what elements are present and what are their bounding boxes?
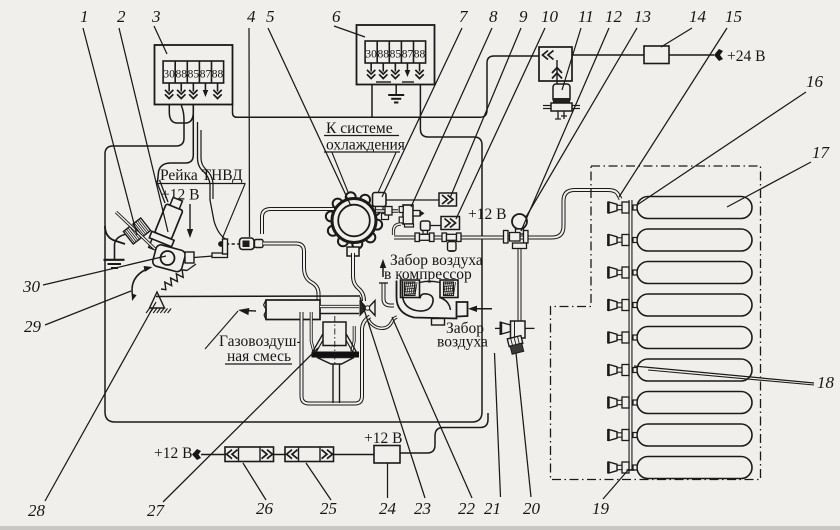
svg-text:26: 26 — [256, 499, 274, 518]
svg-text:11: 11 — [578, 7, 594, 26]
svg-text:30: 30 — [163, 69, 175, 81]
svg-text:12: 12 — [605, 7, 623, 26]
svg-text:88: 88 — [176, 69, 188, 81]
svg-text:4: 4 — [247, 7, 256, 26]
svg-text:16: 16 — [806, 72, 824, 91]
svg-text:9: 9 — [519, 7, 528, 26]
svg-text:22: 22 — [458, 499, 476, 518]
svg-text:25: 25 — [320, 499, 337, 518]
svg-text:ная смесь: ная смесь — [227, 348, 291, 365]
svg-text:88: 88 — [414, 49, 426, 61]
svg-text:88: 88 — [212, 69, 224, 81]
svg-text:30: 30 — [365, 49, 377, 61]
svg-text:18: 18 — [817, 373, 835, 392]
svg-text:29: 29 — [24, 317, 42, 336]
svg-text:охлаждения: охлаждения — [326, 137, 405, 154]
svg-text:30: 30 — [22, 277, 41, 296]
svg-text:20: 20 — [523, 499, 541, 518]
svg-text:28: 28 — [28, 501, 46, 520]
svg-text:+12 В: +12 В — [154, 445, 192, 462]
svg-text:14: 14 — [689, 7, 707, 26]
svg-text:2: 2 — [117, 7, 126, 26]
svg-text:воздуха: воздуха — [437, 334, 488, 351]
svg-text:88: 88 — [378, 49, 390, 61]
svg-text:87: 87 — [402, 49, 414, 61]
svg-text:+12 В: +12 В — [364, 430, 402, 447]
svg-text:3: 3 — [151, 7, 161, 26]
svg-text:87: 87 — [200, 69, 212, 81]
svg-text:5: 5 — [266, 7, 275, 26]
svg-text:в компрессор: в компрессор — [384, 266, 472, 283]
svg-text:Рейка ТНВД: Рейка ТНВД — [160, 167, 243, 184]
svg-text:+12 В: +12 В — [468, 206, 506, 223]
svg-text:24: 24 — [379, 499, 397, 518]
svg-text:21: 21 — [484, 499, 501, 518]
svg-text:К системе: К системе — [326, 120, 393, 137]
svg-text:27: 27 — [147, 501, 166, 520]
svg-text:85: 85 — [390, 49, 402, 61]
svg-text:10: 10 — [541, 7, 559, 26]
svg-text:17: 17 — [812, 143, 831, 162]
svg-text:13: 13 — [634, 7, 651, 26]
svg-text:1: 1 — [80, 7, 89, 26]
svg-text:19: 19 — [592, 499, 610, 518]
svg-text:85: 85 — [188, 69, 200, 81]
svg-text:23: 23 — [414, 499, 431, 518]
svg-text:8: 8 — [489, 7, 498, 26]
svg-text:15: 15 — [725, 7, 742, 26]
svg-text:6: 6 — [332, 7, 341, 26]
svg-text:+24 В: +24 В — [727, 48, 765, 65]
